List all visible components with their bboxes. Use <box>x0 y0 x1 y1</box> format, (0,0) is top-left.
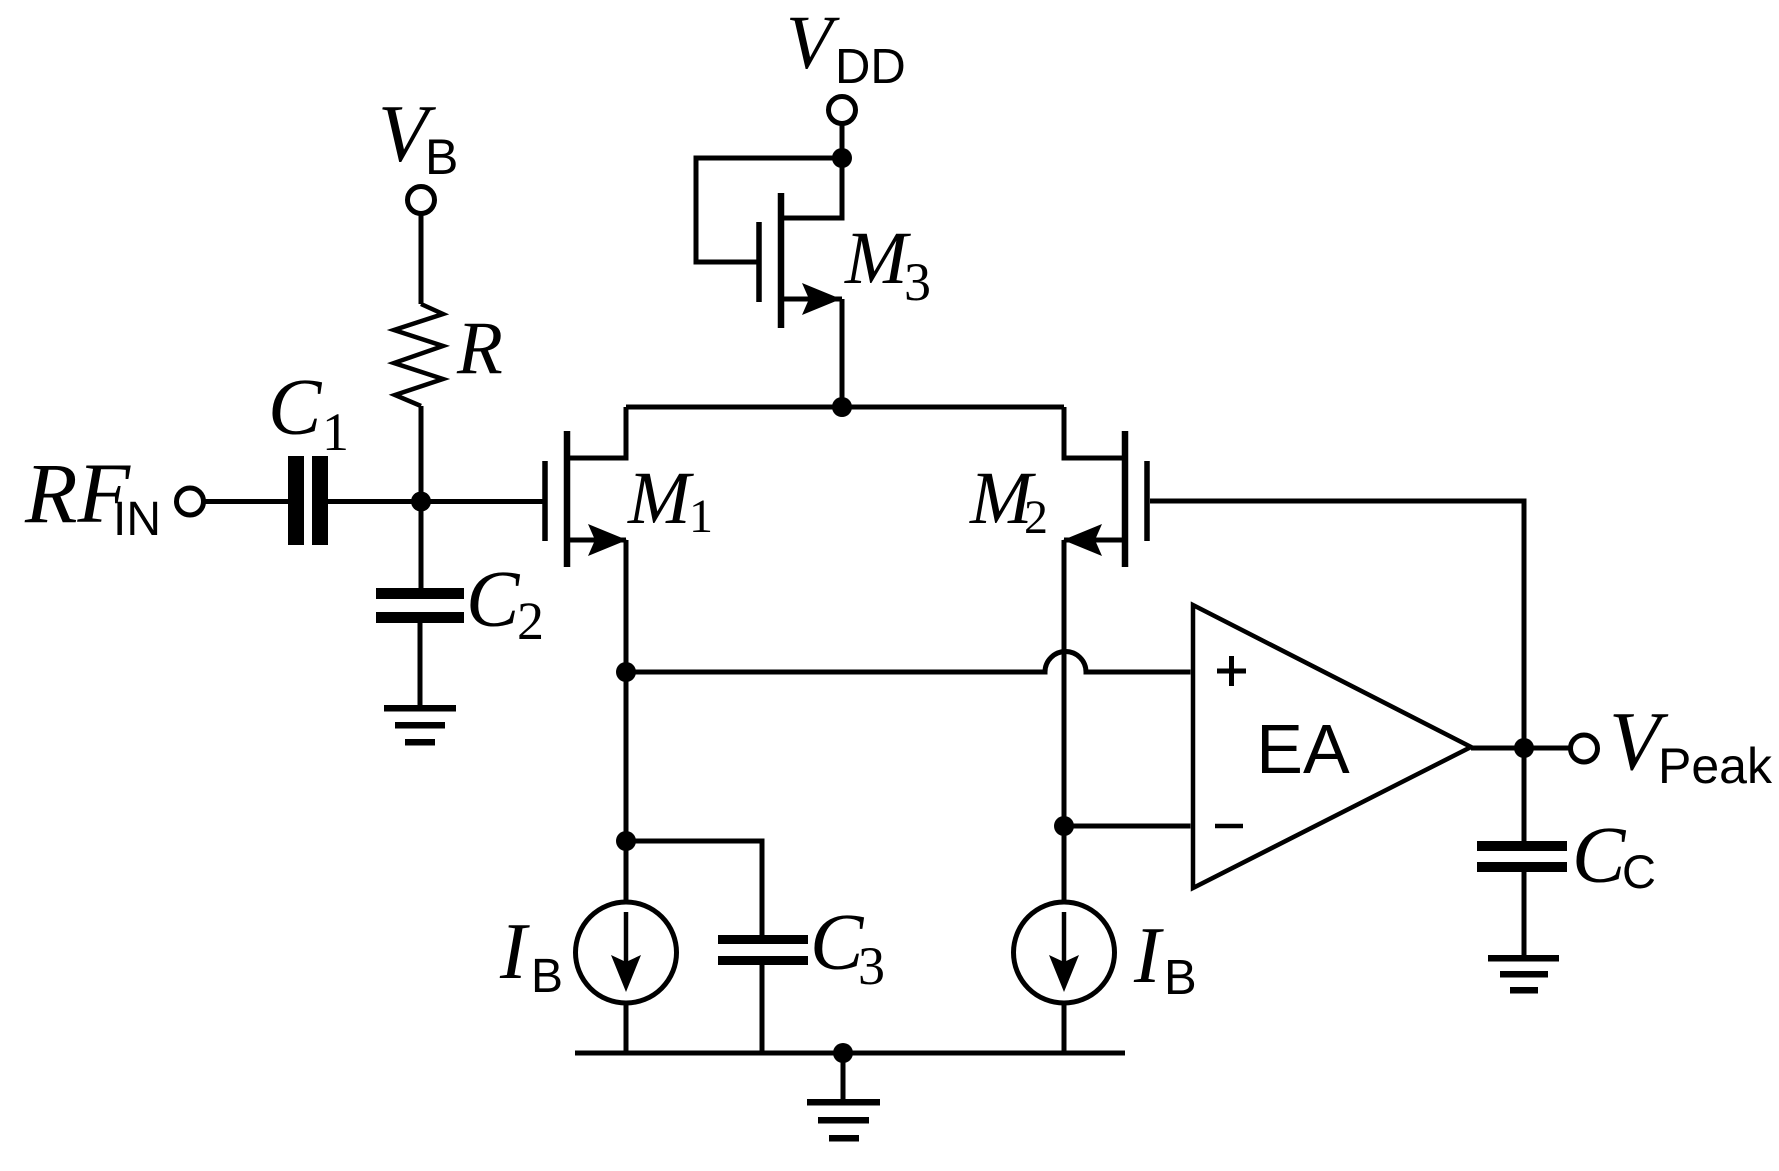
transistor M1 <box>545 407 627 567</box>
svg-text:B: B <box>425 129 458 185</box>
wire CC to ground <box>1522 872 1527 955</box>
label VB <box>378 88 458 185</box>
svg-text:C: C <box>268 364 323 452</box>
node A (gate node) <box>411 492 431 512</box>
wire C2 to ground <box>418 623 423 705</box>
transistor M3 <box>759 158 842 328</box>
node RF_IN terminal <box>177 488 204 515</box>
label IB left <box>499 908 563 1003</box>
node VDD terminal <box>829 97 856 124</box>
ground (below CC) <box>1488 955 1559 994</box>
label CC <box>1572 812 1656 900</box>
svg-text:2: 2 <box>517 591 544 651</box>
wire VB to R <box>419 214 424 305</box>
svg-text:C: C <box>1572 812 1627 900</box>
svg-text:EA: EA <box>1256 710 1350 788</box>
wire C1 to node A <box>328 499 421 504</box>
wire VDD terminal lead <box>840 124 845 159</box>
label EA <box>1256 710 1350 788</box>
node Vpeak <box>1514 738 1534 758</box>
svg-text:V: V <box>786 1 840 85</box>
svg-text:Peak: Peak <box>1658 738 1773 794</box>
wire ground stub <box>841 1053 846 1100</box>
wire into right IB <box>1062 826 1067 903</box>
wire Vpeak to CC <box>1522 748 1527 841</box>
wire M1 source to C3 node <box>624 672 629 841</box>
label M2 <box>969 457 1048 544</box>
capacitor C1 <box>288 456 328 545</box>
wire right IB to rail <box>1062 1003 1067 1053</box>
capacitor C3 <box>718 935 808 965</box>
wire RFin to C1 <box>204 499 290 504</box>
svg-text:1: 1 <box>322 402 349 462</box>
svg-text:2: 2 <box>1024 491 1048 544</box>
label C1 <box>268 364 349 462</box>
node VB terminal <box>408 187 435 214</box>
label C3 <box>810 899 885 996</box>
node bottom rail ground <box>833 1043 853 1063</box>
label R <box>456 307 503 390</box>
wire M2 gate to Vpeak <box>1150 501 1524 748</box>
wire top rail <box>626 405 1064 410</box>
ground (bottom center) <box>807 1099 880 1142</box>
node Vpeak terminal <box>1571 735 1598 762</box>
wire node A to M1 gate <box>421 499 543 504</box>
capacitor CC <box>1477 841 1567 872</box>
svg-text:IN: IN <box>113 493 161 546</box>
wire EA output <box>1471 746 1571 751</box>
wire R to node A <box>419 406 424 502</box>
node VDD junction <box>832 148 852 168</box>
svg-text:3: 3 <box>858 936 885 996</box>
svg-text:1: 1 <box>689 490 713 543</box>
node M1 source <box>616 662 636 682</box>
svg-text:3: 3 <box>904 252 931 312</box>
current source IB left <box>576 902 677 1003</box>
wire M3 source to rail <box>840 299 845 407</box>
wire M1 source node to EA plus (with hop) <box>626 652 1191 673</box>
label M3 <box>844 217 931 312</box>
svg-text:R: R <box>456 307 503 390</box>
wire M1 source down <box>624 540 629 672</box>
label M1 <box>627 457 713 543</box>
ground (below C2) <box>384 705 456 746</box>
svg-text:DD: DD <box>835 40 906 94</box>
current source IB right <box>1014 902 1115 1003</box>
label VDD <box>786 1 906 94</box>
svg-text:C: C <box>1622 845 1656 898</box>
resistor R <box>394 304 443 406</box>
label IB right <box>1133 912 1197 1005</box>
svg-text:B: B <box>1164 951 1197 1005</box>
wire bottom rail <box>575 1051 1125 1056</box>
svg-text:I: I <box>1133 912 1164 1000</box>
node top rail center <box>832 397 852 417</box>
wire M2 source down <box>1062 540 1067 826</box>
wire left IB to rail <box>624 1003 629 1053</box>
node C3 branch <box>616 831 636 851</box>
wire to C3 <box>626 841 762 935</box>
wire C3 to rail <box>760 965 765 1053</box>
op-amp EA <box>1193 605 1471 888</box>
wire node A down to C2 <box>419 502 424 589</box>
node M2 source / EA minus <box>1054 816 1074 836</box>
capacitor C2 <box>376 588 464 623</box>
svg-text:C: C <box>810 899 865 987</box>
svg-text:M: M <box>844 217 911 300</box>
transistor M2 <box>1063 407 1147 567</box>
wire into left IB <box>624 841 629 903</box>
label C2 <box>466 556 544 651</box>
svg-text:M: M <box>627 457 694 540</box>
svg-text:C: C <box>466 556 521 644</box>
wire M3 gate feedback <box>696 158 842 262</box>
svg-text:B: B <box>531 950 563 1003</box>
wire EA minus input <box>1064 824 1191 829</box>
label Vpeak <box>1609 695 1773 794</box>
svg-text:I: I <box>499 908 530 996</box>
label RF_IN <box>24 445 161 546</box>
